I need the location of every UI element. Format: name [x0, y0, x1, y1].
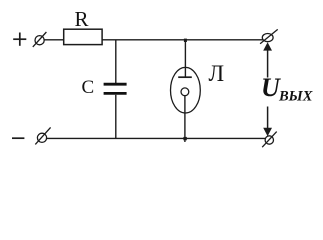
voltage arrow U_BbIX (double-headed, between output terminals)	[263, 42, 272, 136]
lamp anode bar	[178, 76, 192, 78]
lamp U1 envelope (gas-discharge tube Л)	[171, 67, 201, 113]
wire: capacitor branch bottom segment	[115, 95, 117, 139]
svg-text:ВЫХ: ВЫХ	[278, 89, 313, 105]
wire: resistor to top-right terminal (top rail)	[102, 39, 263, 41]
wire: bottom rail	[47, 137, 266, 139]
terminal X3 (output +)	[260, 29, 278, 43]
wire: capacitor branch top segment	[115, 40, 117, 83]
svg-text:C: C	[82, 77, 95, 98]
minus sign (- supply polarity)	[12, 137, 24, 139]
wire: lamp cathode lead to bottom rail	[184, 96, 186, 142]
plus sign (+ supply polarity)	[13, 33, 26, 46]
wire: lamp anode lead from top rail	[184, 40, 186, 77]
node: lamp branch bottom junction	[183, 137, 186, 140]
capacitor C (two plates)	[104, 84, 127, 93]
terminal X1 (+ input)	[33, 32, 47, 47]
resistor R	[64, 29, 102, 44]
svg-text:R: R	[75, 7, 89, 31]
lamp cathode (small circle)	[181, 88, 189, 96]
terminal X4 (output -)	[262, 132, 277, 148]
label U_BbIX backing	[259, 78, 314, 107]
node: lamp branch top junction	[184, 39, 187, 42]
label U_BbIX	[261, 73, 313, 105]
svg-text:U: U	[261, 73, 281, 102]
wire: + terminal to resistor	[44, 39, 64, 41]
terminal X2 (- input)	[35, 127, 50, 144]
svg-text:Л: Л	[209, 61, 225, 86]
